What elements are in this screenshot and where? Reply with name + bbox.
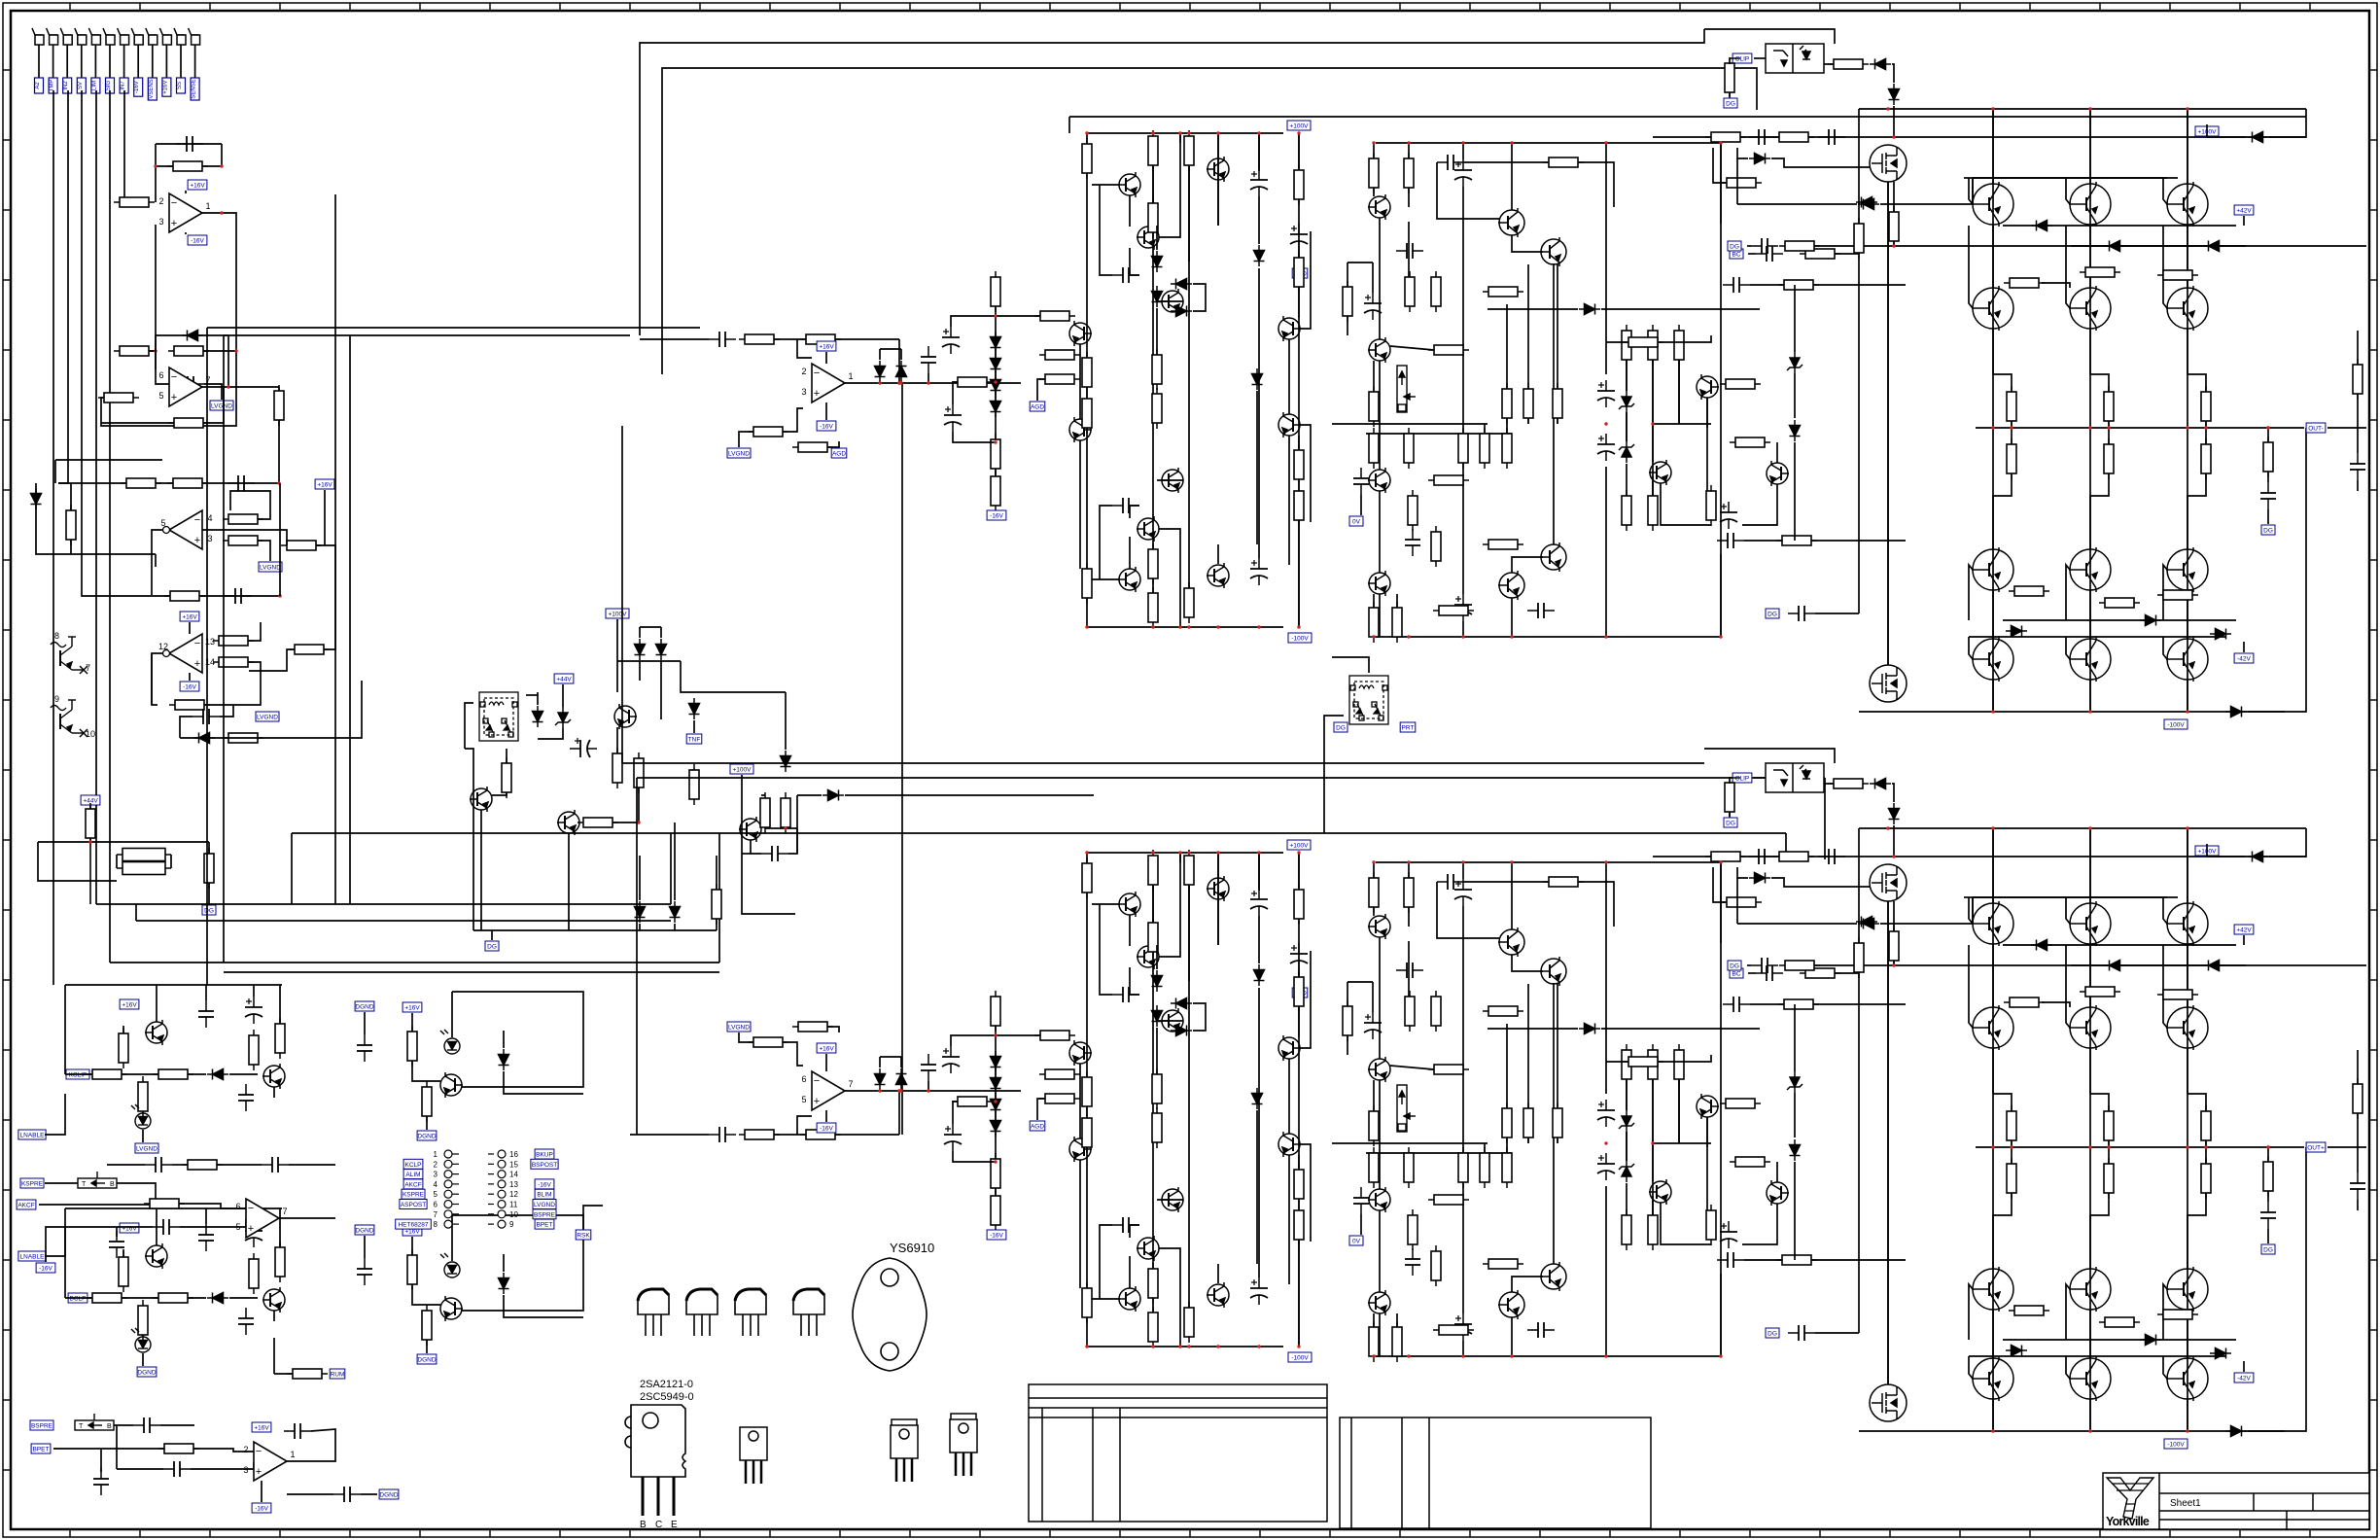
transistor Q12 bbox=[557, 810, 579, 835]
svg-text:-16V: -16V bbox=[134, 81, 140, 93]
wire vas A bbox=[1300, 231, 1311, 329]
polarized capacitor CAd38 bbox=[1597, 434, 1615, 461]
resistor RBc16 bbox=[1082, 1282, 1092, 1323]
LED LEDlb2 bbox=[440, 1253, 460, 1277]
diode DBc6 bbox=[1252, 1088, 1263, 1109]
resistor RAd2 bbox=[1404, 153, 1414, 193]
wire bbox=[1347, 316, 1348, 335]
wire bbox=[1217, 1264, 1219, 1283]
wire bbox=[411, 1013, 413, 1032]
polarized capacitor CBd38 bbox=[1597, 1153, 1615, 1180]
wire bbox=[1464, 881, 1548, 883]
wire bbox=[185, 191, 187, 193]
wire bbox=[2206, 124, 2208, 137]
svg-text:+: + bbox=[256, 1466, 262, 1478]
capacitor Cm8 bbox=[333, 1487, 361, 1502]
svg-text:LVGND: LVGND bbox=[728, 451, 750, 458]
svg-text:+16V: +16V bbox=[122, 1002, 137, 1009]
wire drv misc A bbox=[1720, 143, 1722, 637]
zener diode ZBr1 bbox=[1787, 1071, 1802, 1093]
net label DG (gnd) bbox=[2261, 1244, 2275, 1254]
svg-text:+100V: +100V bbox=[1290, 843, 1310, 850]
resistor RAd24 bbox=[1428, 475, 1469, 485]
connector pin J7 bbox=[118, 28, 129, 45]
net label +16V (pwr) bbox=[120, 1223, 139, 1233]
wire out base stair A bbox=[2163, 637, 2167, 659]
svg-text:OUT-: OUT- bbox=[2308, 426, 2324, 433]
net label -16V (pwr) bbox=[987, 1230, 1006, 1240]
wire bbox=[879, 349, 881, 360]
wire bbox=[879, 1057, 881, 1067]
net label -16V (pwr) bbox=[817, 1123, 836, 1133]
wire bbox=[2267, 472, 2269, 482]
wire drv col B bbox=[1462, 1182, 1464, 1313]
wire bbox=[1653, 1142, 1711, 1144]
wire drv q A bbox=[1511, 143, 1513, 210]
svg-text:+: + bbox=[171, 392, 177, 403]
resistor R20 bbox=[289, 645, 330, 654]
svg-text:DGND: DGND bbox=[417, 1357, 436, 1364]
svg-text:HET68287: HET68287 bbox=[398, 1222, 428, 1229]
wire drv col A bbox=[1379, 491, 1381, 573]
svg-text:DG: DG bbox=[1767, 612, 1777, 618]
net label DG (gnd) bbox=[1728, 961, 1741, 970]
transistor Qlb1 bbox=[145, 1243, 167, 1269]
wire bbox=[785, 692, 787, 750]
diode D17 bbox=[822, 790, 844, 801]
wire drv col A bbox=[1462, 187, 1464, 434]
wire drv col A bbox=[1379, 218, 1381, 339]
wire bbox=[774, 1134, 899, 1136]
capacitor CBo8 bbox=[1818, 849, 1845, 864]
wire out left B bbox=[1858, 1004, 1860, 1333]
wire bbox=[205, 985, 207, 1000]
resistor RAi1 bbox=[739, 334, 780, 344]
wire drv col A bbox=[1527, 418, 1529, 424]
relay K2 bbox=[1349, 676, 1388, 724]
wire x1652b bbox=[1605, 467, 1607, 637]
wire fb2 bbox=[151, 387, 224, 423]
resistor RAd36 bbox=[1433, 606, 1474, 615]
wire row141 B bbox=[1653, 856, 1894, 857]
wire out base stair B bbox=[2066, 945, 2070, 1028]
resistor R36 bbox=[760, 792, 770, 833]
wire bbox=[142, 1353, 144, 1366]
wire out bus row4 B bbox=[1969, 1355, 2226, 1357]
wire bbox=[1880, 923, 1974, 925]
svg-text:DG: DG bbox=[1767, 1331, 1777, 1338]
wire bbox=[1729, 92, 1731, 97]
resistor RBo5 bbox=[1705, 852, 1746, 861]
wire col A bbox=[2187, 225, 2188, 288]
net label TNF (sig) bbox=[686, 734, 702, 744]
svg-text:+: + bbox=[248, 1223, 254, 1235]
wire bbox=[1794, 1004, 1796, 1071]
wire bbox=[1653, 423, 1711, 425]
diode D16 bbox=[781, 751, 791, 772]
wire inp+ bbox=[783, 1042, 803, 1066]
wire out base stair B bbox=[1969, 897, 1973, 924]
wire bbox=[426, 1116, 428, 1130]
wire bbox=[1794, 373, 1796, 418]
wire bus x1877 bbox=[1824, 778, 1826, 859]
net label +16V (pwr) bbox=[402, 1002, 422, 1012]
net label +16V (pwr) bbox=[817, 341, 836, 351]
resistor Rlb4 bbox=[138, 1300, 148, 1341]
wire bbox=[53, 1448, 164, 1450]
wire bbox=[1298, 251, 1300, 263]
svg-text:4: 4 bbox=[434, 1180, 438, 1189]
wire base1b A bbox=[1973, 177, 2167, 179]
wire out bot A bbox=[1859, 711, 2285, 713]
wire bbox=[65, 1297, 92, 1299]
resistor RBe2b bbox=[2201, 1158, 2211, 1199]
resistor RAl6 bbox=[1039, 350, 1080, 360]
svg-text:KCLP: KCLP bbox=[405, 1162, 422, 1169]
resistor RBl4 bbox=[952, 1097, 993, 1106]
wire bbox=[273, 1087, 275, 1098]
svg-text:-16V: -16V bbox=[990, 513, 1003, 520]
wire bbox=[1462, 862, 1464, 879]
net label +100V (pwr) bbox=[730, 764, 753, 774]
connector pin J6 bbox=[103, 28, 115, 45]
wire bbox=[156, 985, 157, 1022]
wire bbox=[1462, 1341, 1464, 1356]
wire bbox=[1652, 1079, 1654, 1181]
wire bbox=[1156, 226, 1158, 250]
resistor RAi2 bbox=[800, 334, 841, 344]
wire to pin3 bbox=[120, 225, 156, 351]
svg-text:1: 1 bbox=[205, 201, 210, 211]
resistor RBc8 bbox=[1152, 1068, 1162, 1109]
diode DAb11 bbox=[2140, 615, 2161, 626]
wire out bases A bbox=[1973, 177, 2178, 179]
wire bbox=[412, 1061, 440, 1081]
wire bbox=[1347, 981, 1373, 983]
resistor RBd22 bbox=[1502, 1147, 1512, 1188]
wire bbox=[1652, 476, 1654, 496]
polarized capacitor CBc5 bbox=[1250, 1277, 1268, 1305]
wire mos A bbox=[1887, 182, 1889, 665]
wire bbox=[562, 684, 564, 707]
wire cluster q B bbox=[1129, 915, 1131, 946]
svg-text:+100V: +100V bbox=[1290, 123, 1310, 130]
wire bbox=[100, 1449, 102, 1472]
wire bbox=[1360, 495, 1362, 515]
wire bus y857 bbox=[292, 832, 1786, 834]
resistor RBd21 bbox=[1480, 1147, 1489, 1188]
wire out base stair A bbox=[2066, 226, 2070, 308]
resistor R5 bbox=[168, 346, 209, 356]
wire col B bbox=[1992, 828, 1994, 903]
resistor RAo10 bbox=[1721, 178, 1762, 188]
wire bbox=[1658, 1055, 1711, 1062]
wire bbox=[1747, 964, 1751, 966]
net label ACD (sig) bbox=[1292, 268, 1308, 278]
wire bbox=[1079, 440, 1081, 569]
net label +16V (pwr) bbox=[817, 1043, 836, 1053]
wire drv q A bbox=[1512, 235, 1543, 252]
resistor RAd42 bbox=[1622, 490, 1631, 531]
connector pin J11 bbox=[174, 28, 186, 45]
wire drv misc B bbox=[1706, 1117, 1708, 1210]
transistor QAc9 bbox=[1161, 468, 1183, 493]
capacitor CAi1 bbox=[709, 332, 736, 347]
wire base row2 B bbox=[2003, 944, 2236, 946]
svg-text:7: 7 bbox=[434, 1210, 438, 1219]
svg-text:B: B bbox=[640, 1520, 647, 1530]
transistor QBd46 bbox=[1649, 1179, 1671, 1205]
op-amp U2B bbox=[158, 634, 215, 673]
wire bbox=[1794, 1162, 1796, 1260]
wire bbox=[1298, 1240, 1300, 1347]
wire drv col B bbox=[1408, 862, 1410, 878]
transistor QBo20 bbox=[1972, 1267, 2013, 1312]
resistor RAm1 bbox=[1854, 218, 1864, 259]
wire bbox=[503, 1071, 505, 1087]
wire out left A bbox=[1858, 285, 1860, 613]
wire bbox=[797, 794, 822, 796]
wire bbox=[1179, 133, 1181, 143]
wire bbox=[1747, 245, 1751, 247]
svg-text:6: 6 bbox=[158, 370, 163, 380]
resistor Rm1 bbox=[182, 1160, 223, 1170]
svg-text:-42V: -42V bbox=[2237, 656, 2251, 663]
wire route y947 bbox=[136, 920, 671, 922]
resistor RAn7 bbox=[1776, 536, 1817, 545]
wire J6 stem bbox=[109, 45, 111, 78]
svg-text:14: 14 bbox=[509, 1171, 518, 1179]
resistor RAd22 bbox=[1502, 428, 1512, 469]
net label ALIM (pin label) bbox=[403, 1170, 423, 1179]
wire cluster q A bbox=[1129, 537, 1131, 569]
wire bbox=[1298, 853, 1300, 890]
wire cluster row A bbox=[1092, 578, 1119, 580]
wire cluster row B bbox=[1157, 1199, 1183, 1201]
resistor RAd16 bbox=[1523, 383, 1533, 424]
svg-text:AGD: AGD bbox=[1031, 404, 1044, 411]
svg-text:+: + bbox=[171, 218, 177, 229]
wire drv col A bbox=[1462, 463, 1464, 594]
wire drv col B bbox=[1373, 862, 1375, 878]
wire gate bbox=[1771, 158, 1870, 167]
wire bbox=[612, 787, 639, 822]
wire bbox=[1973, 897, 1974, 924]
resistor RAi3 bbox=[748, 427, 788, 437]
wire drv mid2 B bbox=[1366, 1152, 1512, 1154]
net label AKCF (pin label) bbox=[403, 1179, 423, 1189]
diode D3 bbox=[31, 488, 42, 509]
wire bbox=[504, 1087, 583, 1094]
connector pin 10 bbox=[488, 1210, 518, 1219]
wire bbox=[253, 1208, 255, 1220]
transistor Qla1 bbox=[145, 1020, 167, 1045]
LED LEDla2 bbox=[440, 1030, 460, 1054]
package TO-220F package bbox=[891, 1419, 918, 1482]
net label DGND (gnd) bbox=[355, 1225, 374, 1235]
connector pin J4 bbox=[75, 28, 87, 45]
diode DAl2 bbox=[991, 374, 1001, 396]
wire drv col A bbox=[1557, 418, 1558, 424]
wire bbox=[217, 1164, 262, 1166]
wire in row A bbox=[640, 338, 709, 340]
polarized capacitor CAi4 bbox=[944, 404, 962, 432]
resistor RBd24 bbox=[1428, 1195, 1469, 1205]
svg-text:3: 3 bbox=[158, 217, 163, 227]
wire drv misc B bbox=[1661, 1203, 1711, 1244]
wire bus from J2 bbox=[52, 90, 54, 985]
wire fb diode bbox=[156, 334, 228, 336]
wire bbox=[2267, 428, 2269, 442]
transistor QBo00 bbox=[1972, 901, 2013, 946]
wire bbox=[739, 432, 753, 447]
capacitor CBc1 bbox=[1112, 987, 1139, 1002]
svg-text:B: B bbox=[107, 1423, 112, 1430]
transistor QBd28 bbox=[1368, 1290, 1390, 1315]
wire col B bbox=[2187, 828, 2188, 903]
capacitor CAn6 bbox=[1717, 533, 1744, 548]
connector pin 6 bbox=[434, 1201, 459, 1209]
resistor RBd2 bbox=[1404, 872, 1414, 913]
svg-text:-16V: -16V bbox=[820, 424, 833, 431]
optocoupler UBopto bbox=[1766, 763, 1824, 792]
wire col B bbox=[1993, 1193, 2012, 1269]
net label KCLP (pin label) bbox=[403, 1159, 423, 1169]
wire bbox=[204, 662, 261, 705]
net label +16V (pwr) bbox=[180, 612, 199, 621]
optocoupler UAopto bbox=[1766, 44, 1824, 73]
wire bbox=[1750, 284, 1784, 286]
wire col A bbox=[2108, 421, 2110, 444]
resistor RBe0b bbox=[2007, 1158, 2016, 1199]
transistor QBd1 bbox=[1368, 914, 1390, 939]
net label +100V (pwr) bbox=[2195, 126, 2219, 136]
op-amp Um2 bbox=[243, 1442, 295, 1481]
wire bbox=[953, 382, 984, 404]
resistor RAr1 bbox=[1343, 281, 1352, 322]
wire u2a p2 bbox=[202, 530, 287, 545]
net label CLIP (sig) bbox=[1732, 53, 1752, 63]
transistor QBc12 bbox=[1207, 1282, 1229, 1308]
wire bbox=[46, 1227, 117, 1262]
wire bbox=[1813, 1003, 1906, 1005]
svg-text:2SA2121-0: 2SA2121-0 bbox=[640, 1379, 693, 1390]
capacitor CBd26 bbox=[1405, 1248, 1420, 1276]
resistor RBd15 bbox=[1502, 1102, 1512, 1143]
svg-text:DGND: DGND bbox=[355, 1228, 373, 1235]
resistor R23 bbox=[86, 803, 95, 844]
net label AKCF (sig) bbox=[17, 1200, 36, 1209]
connector pin 9 bbox=[488, 1220, 514, 1229]
resistor RAd34 bbox=[1483, 540, 1523, 549]
wire fb lower bbox=[203, 350, 236, 352]
resistor RAb7 bbox=[2009, 586, 2049, 596]
capacitor CAd8 bbox=[1396, 243, 1423, 259]
wire bbox=[996, 315, 1048, 317]
capacitor C5 bbox=[225, 588, 252, 604]
diode Dlb2 bbox=[499, 1273, 509, 1294]
wire bbox=[1408, 188, 1410, 207]
wire out col A bbox=[2187, 109, 2188, 712]
svg-text:−: − bbox=[814, 367, 820, 379]
resistor RBe1b bbox=[2104, 1158, 2114, 1199]
wire drv col B bbox=[1557, 1137, 1558, 1143]
polarized capacitor CBi3 bbox=[942, 1046, 960, 1073]
wire out base stair A bbox=[1969, 637, 1973, 659]
resistor RBc7 bbox=[1082, 1112, 1092, 1153]
capacitor CAc1 bbox=[1112, 267, 1139, 283]
svg-text:−: − bbox=[194, 638, 200, 649]
transistor QAc7 bbox=[1278, 316, 1301, 341]
wire bbox=[249, 622, 261, 641]
wire bbox=[227, 335, 229, 387]
resistor RBd17 bbox=[1553, 1102, 1562, 1143]
net label +16V (pwr) bbox=[315, 479, 334, 489]
wire out base stair B bbox=[1969, 1356, 1973, 1379]
wire bbox=[52, 1448, 54, 1450]
resistor R30 bbox=[502, 757, 511, 798]
polarized capacitor CAd31 bbox=[1454, 594, 1472, 621]
resistor RBd36 bbox=[1433, 1325, 1474, 1335]
svg-text:12: 12 bbox=[509, 1190, 518, 1199]
polarized capacitor CBd3 bbox=[1454, 879, 1472, 906]
wire out bases2 A bbox=[1972, 178, 1974, 204]
wire bbox=[765, 827, 797, 829]
wire bus from J4 bbox=[82, 90, 151, 596]
resistor RBc6 bbox=[1082, 1071, 1092, 1112]
svg-text:+: + bbox=[194, 535, 200, 546]
resistor RAo12 bbox=[1889, 206, 1899, 247]
svg-text:BC: BC bbox=[1732, 252, 1740, 259]
resistor RAd9 bbox=[1405, 271, 1415, 312]
wire out bases B bbox=[1973, 896, 2178, 898]
capacitor Cm2 bbox=[262, 1157, 289, 1172]
wire drv misc A bbox=[1661, 483, 1711, 525]
wire col A bbox=[2187, 590, 2188, 639]
wire bbox=[220, 705, 233, 717]
wire bbox=[122, 1249, 124, 1257]
capacitor CAz2 bbox=[2260, 482, 2276, 509]
resistor RAc7 bbox=[1082, 393, 1092, 434]
net label KCLIP (sig) bbox=[66, 1069, 89, 1079]
svg-text:2: 2 bbox=[801, 367, 806, 376]
svg-text:AKCF: AKCF bbox=[17, 1203, 34, 1209]
wire bbox=[827, 441, 839, 447]
wire bbox=[188, 1073, 206, 1075]
wire col A bbox=[2089, 590, 2091, 639]
transistor QAd33 bbox=[1540, 542, 1566, 572]
wire bbox=[155, 554, 157, 567]
wire bbox=[116, 1425, 118, 1469]
polarized capacitor CBd49 bbox=[1720, 1221, 1737, 1248]
wire bbox=[1086, 133, 1088, 143]
wire cluster col A bbox=[1152, 166, 1154, 608]
connector pin J1 bbox=[32, 28, 44, 45]
wire bbox=[1217, 181, 1219, 226]
wire route bbox=[349, 335, 351, 904]
wire drv col B bbox=[1527, 1137, 1529, 1143]
wire bbox=[1152, 166, 1154, 227]
svg-text:-16V: -16V bbox=[183, 684, 196, 691]
resistor Rlb7 bbox=[407, 1249, 417, 1290]
resistor RAc4 bbox=[1148, 197, 1158, 238]
wire bbox=[503, 1254, 505, 1272]
wire out col B bbox=[1992, 828, 1994, 1431]
wire bbox=[1893, 182, 1895, 212]
net label BLIM (pin label) bbox=[535, 1189, 554, 1199]
wire bbox=[2357, 394, 2359, 453]
transistor QBc8 bbox=[1278, 1132, 1301, 1157]
